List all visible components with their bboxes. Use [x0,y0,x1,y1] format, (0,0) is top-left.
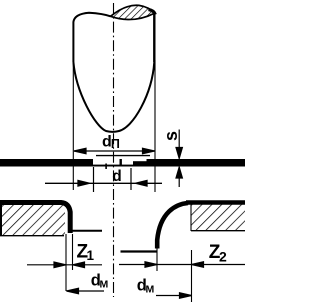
left die block hatch [0,204,65,236]
centerline [113,3,115,297]
slug right dark patch [133,161,147,166]
right die hole bottom line [121,250,158,252]
left die block left dark edge [0,202,2,236]
left die top edge + wall (thick) [0,203,70,234]
s dimension [176,130,182,188]
Z2 extension lines [156,248,158,271]
d dimension line [45,181,162,187]
right die hatch left border [190,204,192,231]
strip right segment [147,159,246,167]
right die block hatch [191,204,245,231]
right die top edge (thick) [186,200,245,205]
dM left dimension [67,288,105,294]
left die hatch bottom [0,235,64,237]
d dimension ticks [93,167,95,192]
punch body outline [73,13,110,62]
slug divider tick [120,159,122,165]
svg-text:М: М [100,279,109,291]
svg-text:М: М [146,284,155,296]
slug left tick [105,164,107,170]
punch parabolic tip [73,62,154,132]
slug raised top line [96,155,150,157]
right die radius edge (thick) [157,203,188,249]
Z2 dimension line [119,262,245,268]
dimension d_P line [74,148,155,154]
strip left segment [0,159,93,167]
lens right junction blob [149,10,156,15]
dM right dimension [156,293,192,299]
svg-text:2: 2 [219,248,227,264]
Z1 dimension line [27,262,102,268]
punch section lens (hatched) [111,5,155,19]
left die hole step line [71,230,102,232]
Z1 extension lines [65,234,67,291]
svg-text:1: 1 [87,248,95,263]
extension line punch left [72,60,74,190]
strip cut window bottom sliver [93,165,147,167]
right die hatch bottom [191,230,245,232]
punch right edge [153,13,155,63]
svg-text:s: s [161,131,181,141]
svg-text:П: П [111,137,120,151]
svg-text:d: d [112,168,121,185]
extension line punch right [154,60,156,192]
